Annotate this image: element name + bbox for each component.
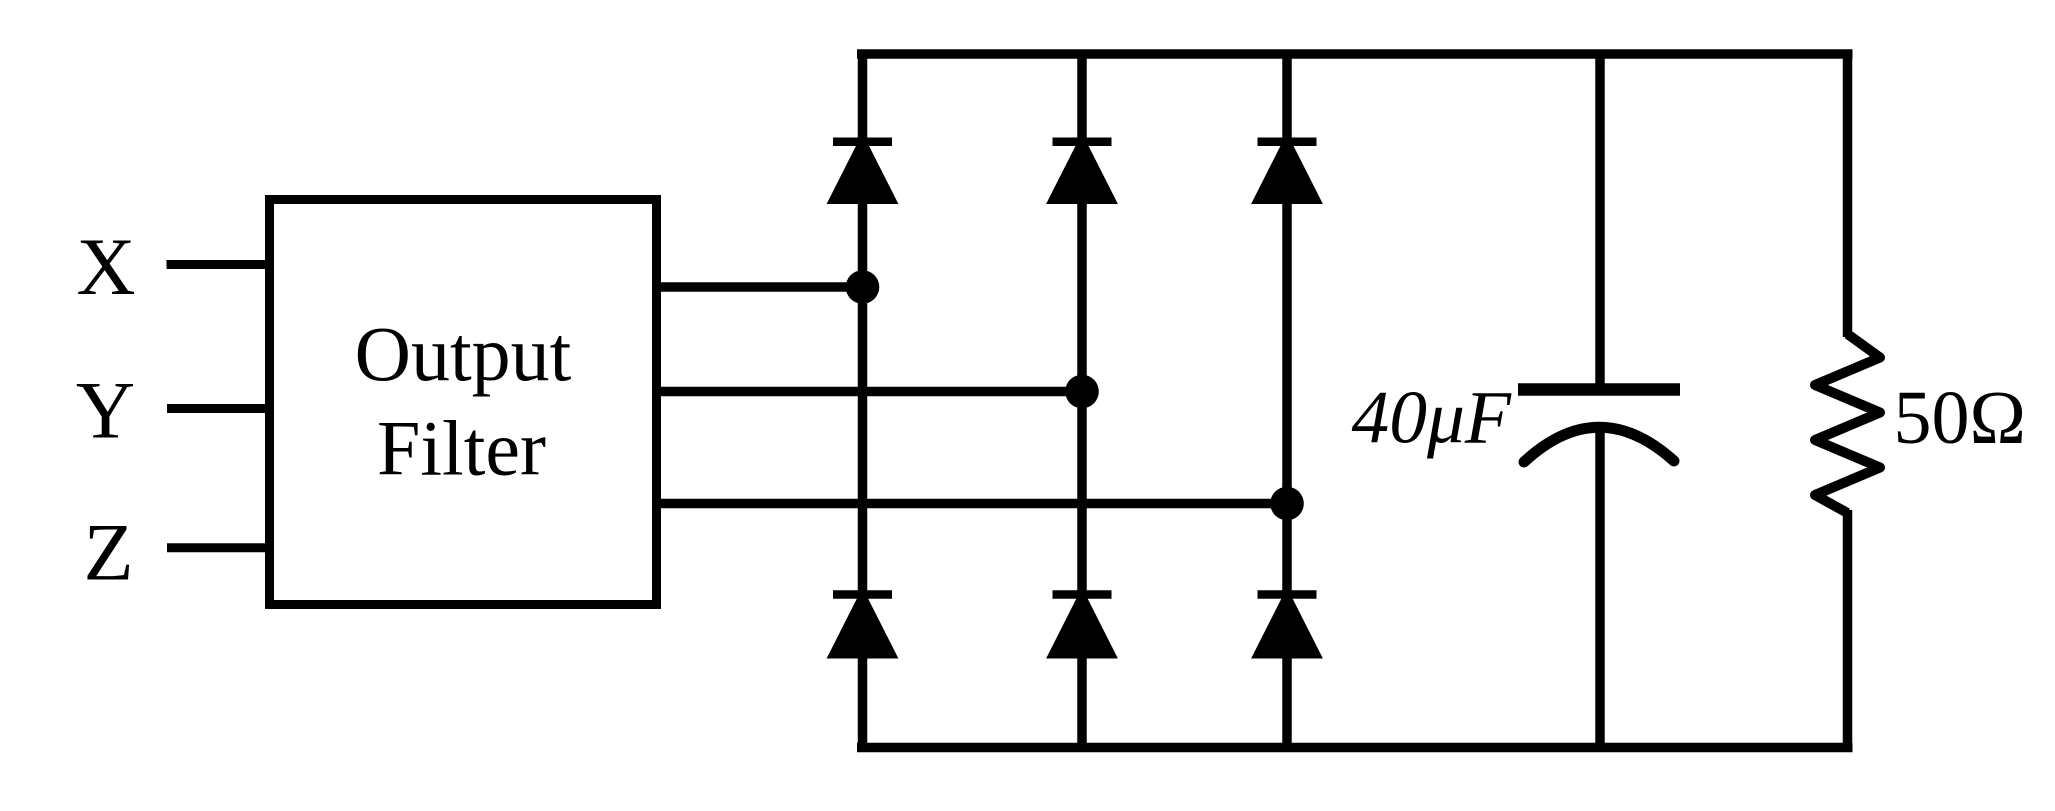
node C junction dot [1270,487,1304,521]
wire X input [167,260,267,269]
diode D6 [1251,588,1323,659]
node A junction dot [846,270,880,304]
node B junction dot [1065,375,1099,409]
wire right leg lower [1843,510,1853,752]
wire leg 1 [858,50,868,753]
wire phase X from filter to node A [656,282,863,292]
wire phase Y from filter to node B [656,387,1082,397]
svg-text:X: X [76,221,135,312]
svg-text:Z: Z [83,507,133,598]
resistor R1 [1815,334,1880,513]
diode D2 cathode bar [1053,138,1112,147]
wire Z input [167,543,266,552]
wire leg 3 [1282,50,1292,753]
output filter block U1 [270,200,657,605]
diode D5 [1046,588,1118,659]
capacitor C1 top plate [1518,383,1680,396]
diode D6 cathode bar [1258,590,1317,599]
svg-text:Output: Output [355,310,572,397]
diode D5 cathode bar [1053,590,1112,599]
svg-text:Y: Y [76,365,135,456]
diode D2 [1046,133,1118,204]
wire capacitor leg lower [1595,426,1605,752]
wire leg 2 [1077,50,1087,753]
svg-text:Filter: Filter [377,405,546,492]
diode D4 [827,588,899,659]
wire phase Z from filter to node C [656,499,1287,509]
svg-text:50Ω: 50Ω [1894,376,2026,460]
diode D4 cathode bar [833,590,892,599]
wire top bus [857,49,1853,59]
wire Y input [167,404,266,413]
diode D3 [1251,133,1323,204]
wire capacitor leg upper [1595,50,1605,391]
svg-text:40μF: 40μF [1352,377,1512,460]
capacitor C1 bottom plate [1524,427,1674,462]
diode D1 [827,133,899,204]
wire bottom bus [857,743,1853,753]
diode D3 cathode bar [1258,138,1317,147]
diode D1 cathode bar [833,138,892,147]
wire right leg upper [1843,50,1853,338]
